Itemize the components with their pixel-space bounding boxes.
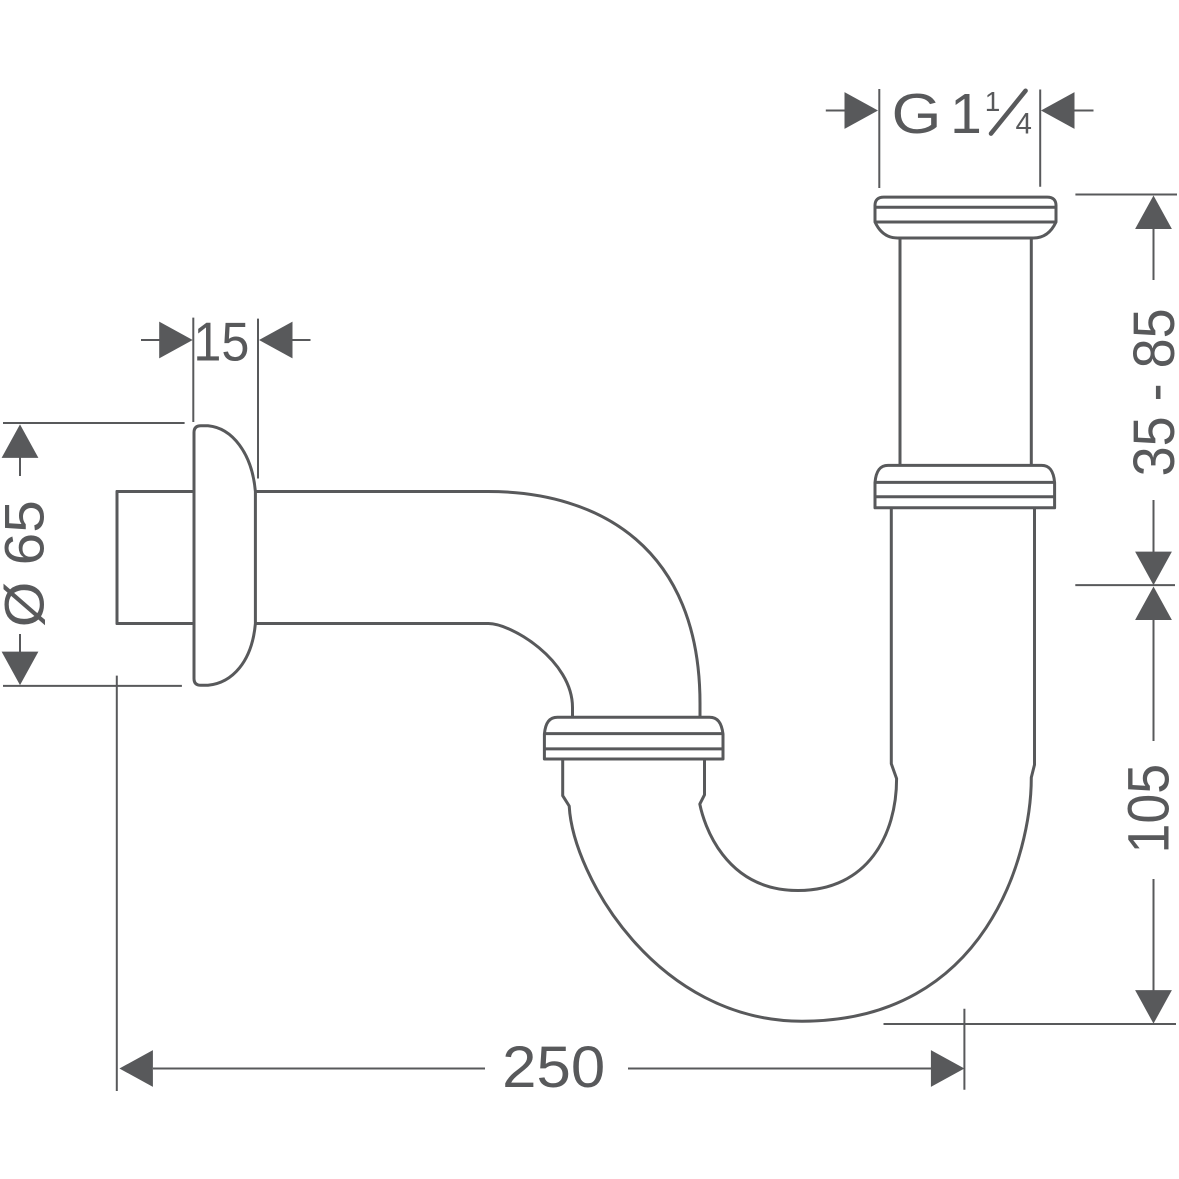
G 1 1/4 right arrowhead [1041, 92, 1075, 129]
union nut N3 riser top [875, 197, 1056, 238]
dim 35-85 dim line lower segment [1153, 500, 1155, 552]
dia 65 top extension line [3, 422, 185, 424]
svg-text:G: G [892, 82, 942, 146]
inlet pipe top wall and outer elbow [117, 492, 700, 718]
dia 65 dim line lower segment [19, 634, 21, 653]
nut N3 ridge line upper [875, 206, 1056, 209]
G 1 1/4 left arrow tail [826, 110, 846, 112]
G 1 1/4 left extension line [878, 89, 880, 188]
dim 105 bottom extension line [884, 1023, 1177, 1025]
dim 15 right arrowhead [259, 322, 293, 359]
dim 105 bottom arrowhead [1135, 990, 1172, 1024]
dim 35-85 bottom arrowhead [1135, 552, 1172, 586]
inlet pipe end cap [116, 492, 119, 624]
dim 105 dim line upper segment [1153, 619, 1155, 741]
svg-text:35 - 85: 35 - 85 [1122, 308, 1179, 476]
dim 15 right extension line [257, 319, 259, 479]
dim 105 top arrowhead [1135, 587, 1172, 621]
dim 250 dim line right segment [628, 1068, 931, 1070]
G 1 1/4 right arrow tail [1074, 110, 1094, 112]
fraction slash [991, 91, 1026, 134]
union nut N1 lower left [544, 717, 723, 759]
nut N2 ridge line upper [875, 481, 1055, 484]
dia 65 dim line upper segment [19, 457, 21, 476]
G 1 1/4 right extension line [1039, 90, 1041, 187]
svg-text:105: 105 [1117, 764, 1179, 854]
nut N3 ridge line lower [875, 221, 1056, 224]
svg-text:Ø 65: Ø 65 [0, 500, 56, 627]
dia 65 bottom arrowhead [2, 652, 39, 686]
dim 250 right extension line [963, 1009, 965, 1090]
trap U outer wall [563, 508, 1035, 1021]
dim 15 left extension line [192, 318, 194, 422]
svg-text:15: 15 [193, 310, 249, 372]
svg-text:250: 250 [502, 1035, 605, 1100]
union nut N2 riser middle [875, 465, 1055, 507]
dim 15 left arrow tail [141, 339, 160, 341]
dim 250 left extension line [116, 676, 118, 1091]
G 1 1/4 left arrowhead [845, 92, 879, 129]
nut N1 ridge line lower [544, 747, 723, 750]
riser pipe left wall [899, 238, 902, 465]
dim 35-85 top extension line [1075, 194, 1177, 196]
dim 250 right arrowhead [931, 1050, 965, 1087]
dim 15 left arrowhead [159, 322, 193, 359]
dim 250 left arrowhead [119, 1050, 152, 1087]
riser pipe right wall [1030, 238, 1033, 465]
svg-text:1: 1 [950, 82, 982, 146]
dim 35-85 top arrowhead [1135, 196, 1172, 230]
nut N2 ridge line lower [875, 495, 1055, 498]
wall flange [194, 426, 255, 686]
svg-text:1: 1 [985, 86, 1001, 117]
dim 250 dim line left segment [153, 1068, 485, 1070]
trap U inner wall [700, 508, 897, 891]
inlet pipe bottom wall and inner elbow [117, 624, 573, 718]
dim 105 dim line lower segment [1153, 879, 1155, 991]
dim 35-85 dim line upper segment [1153, 228, 1155, 280]
dim 15 right arrow tail [293, 339, 311, 341]
dim 35-85 / 105 middle extension line [1075, 584, 1175, 586]
nut N1 ridge line upper [544, 732, 723, 735]
dia 65 bottom extension line [3, 685, 182, 687]
svg-text:4: 4 [1015, 108, 1031, 141]
dia 65 top arrowhead [2, 424, 39, 458]
